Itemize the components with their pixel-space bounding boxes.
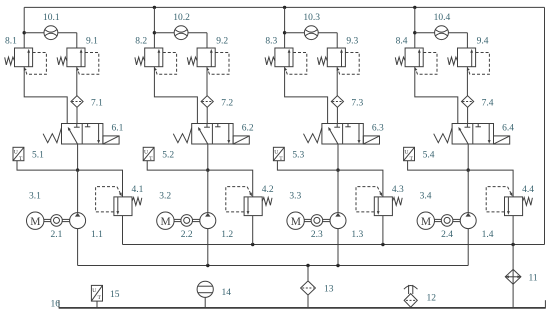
shaft motor 3.3 to coupling 2.3 [304,219,311,221]
filter 7.1 [71,96,103,109]
wire: valve 6.3 outlet down [337,144,339,170]
wire: relief 4.1 to return rail [122,216,124,245]
wire: valve 9.2 to filter 7.2 [206,67,208,96]
svg-text:U: U [404,149,408,155]
svg-text:2.2: 2.2 [181,230,193,240]
coupling 2.3 [311,215,323,241]
svg-text:5.2: 5.2 [162,150,174,160]
wire: sensor 5.1 drain to relief 4.1 [17,161,123,197]
svg-text:8.2: 8.2 [135,37,147,47]
svg-text:10.1: 10.1 [43,13,60,23]
pressure valve 8.1 [5,37,47,75]
tank line 16 [51,300,546,310]
wire: suction drop to filter 13 [307,266,309,281]
pump 1.2 [200,213,234,241]
wire: cooler 11 to tank line [512,284,514,308]
junction node suction / pump 1.3 [336,264,339,267]
directional valve 6.2 [173,124,254,145]
shaft motor 3.2 to coupling 2.2 [174,219,181,221]
svg-text:4.4: 4.4 [522,185,534,195]
relief valve 4.4 [486,185,534,215]
wire: valve 8.1 to valve 6.1 port A [24,67,67,124]
wire: valve 8.2 to valve 6.2 port A [154,67,197,124]
svg-text:8.4: 8.4 [396,37,408,47]
svg-text:5.3: 5.3 [292,150,304,160]
svg-text:4.1: 4.1 [132,185,144,195]
motor 3.4 [417,191,434,229]
svg-text:4.2: 4.2 [262,185,274,195]
shaft motor 3.4 to coupling 2.4 [435,219,442,221]
pressure valve 8.2 [135,37,177,75]
wire: supply drop to valve 8.3 [284,7,286,48]
svg-text:15: 15 [110,290,120,300]
svg-text:10.2: 10.2 [173,13,190,23]
wire: valve 6.4 outlet down [467,144,469,170]
svg-text:10.3: 10.3 [303,13,320,23]
pump 1.1 [70,213,104,241]
pressure sensor 5.4 [404,147,435,162]
flow meter 10.4 [434,13,451,39]
filter 7.3 [331,96,363,109]
svg-text:10.4: 10.4 [434,13,451,23]
svg-text:1.3: 1.3 [351,230,363,240]
pressure valve 8.4 [395,37,437,75]
wire: pump 1.2 suction [207,229,209,266]
filter 7.4 [462,96,494,109]
wire: sensor 5.4 drain to relief 4.4 [408,161,513,197]
cooler 11 [505,269,538,284]
svg-text:6.2: 6.2 [242,124,254,134]
svg-text:12: 12 [427,293,437,303]
svg-text:8.3: 8.3 [265,37,277,47]
filter 7.2 [201,96,233,109]
svg-text:2.1: 2.1 [51,230,63,240]
svg-text:9.2: 9.2 [216,37,228,47]
svg-text:6.3: 6.3 [372,124,384,134]
svg-text:1.2: 1.2 [221,230,233,240]
junction node top rail / section 2 [153,6,156,9]
svg-text:M: M [421,216,431,228]
wire: pump 1.4 suction [467,229,469,266]
junction node at flow-meter tee 10.2 [153,31,156,34]
svg-text:T: T [279,156,283,162]
svg-text:11: 11 [529,273,538,283]
relief valve 4.3 [356,185,404,215]
svg-text:5.4: 5.4 [423,150,435,160]
wire: drain collector rail [123,244,545,246]
svg-text:U: U [14,149,18,155]
pump 1.3 [330,213,364,241]
svg-text:1.4: 1.4 [482,230,494,240]
svg-text:13: 13 [324,284,334,294]
svg-text:T: T [19,156,23,162]
junction node at flow-meter tee 10.1 [23,31,26,34]
wire: branch to flow meter 10.3 [285,33,338,48]
wire: line to pump 1.1 [77,170,79,213]
wire: line to pump 1.2 [207,170,209,213]
junction node suction / pump 1.2 [206,264,209,267]
svg-text:M: M [30,216,40,228]
directional valve 6.4 [434,124,515,145]
junction node drain rail / cooler 11 [511,243,514,246]
pressure sensor 5.3 [273,147,304,162]
svg-text:7.2: 7.2 [221,99,233,109]
directional valve 6.3 [304,124,385,145]
wire: relief 4.3 to return rail [382,216,384,245]
pump 1.4 [460,213,494,241]
svg-text:T: T [149,156,153,162]
relief valve 4.2 [226,185,274,215]
svg-text:M: M [161,216,171,228]
wire: supply drop to valve 8.4 [414,7,416,48]
svg-text:U: U [92,288,96,294]
pressure sensor 5.2 [143,147,174,162]
motor 3.1 [27,191,44,229]
shaft coupling 2.3 to pump 1.3 [323,219,330,221]
wire: suction manifold [78,265,469,267]
svg-text:2.3: 2.3 [311,230,323,240]
svg-text:9.4: 9.4 [477,37,489,47]
coupling 2.1 [51,215,63,241]
wire: sensor 5.3 drain to relief 4.3 [277,161,383,197]
junction node drain rail / 4.2 [251,243,254,246]
wire: valve 9.4 to filter 7.4 [466,67,468,96]
pressure sensor 5.1 [13,147,44,162]
wire: line to pump 1.4 [467,170,469,213]
wire: valve 6.2 outlet down [207,144,209,170]
filter 13 [301,281,334,295]
junction node suction / filter 13 [306,264,309,267]
wire: branch to flow meter 10.1 [24,33,77,48]
wire: pump 1.1 suction [77,229,79,266]
svg-text:T: T [410,156,414,162]
junction node at flow-meter tee 10.3 [283,31,286,34]
wire: filter 7.4 to valve 6.4 [467,107,469,123]
wire: right edge down leg [544,7,546,244]
wire: filter 7.2 to valve 6.2 [206,107,208,123]
pressure valve 8.3 [265,37,307,75]
wire: valve 8.3 to valve 6.3 port A [285,67,328,124]
pressure valve 9.3 [318,37,360,75]
svg-text:7.1: 7.1 [91,99,103,109]
level gauge 14 [197,281,231,308]
junction node on line P3 [336,168,339,171]
junction node top rail / section 3 [283,6,286,9]
svg-text:3.4: 3.4 [420,191,432,201]
air breather 12 [404,285,436,307]
temperature sensor 15 [91,285,119,308]
wire: supply drop to valve 8.2 [153,7,155,48]
wire: valve 6.1 outlet down [77,144,79,170]
coupling 2.4 [441,215,453,241]
junction node on line P2 [206,168,209,171]
flow meter 10.1 [43,13,60,39]
svg-text:3.1: 3.1 [29,191,41,201]
svg-text:3.3: 3.3 [289,191,301,201]
junction node on line P4 [467,168,470,171]
svg-text:U: U [274,149,278,155]
pressure valve 9.2 [187,37,229,75]
shaft coupling 2.4 to pump 1.4 [453,219,460,221]
svg-text:1.1: 1.1 [91,230,103,240]
wire: drain rail to cooler 11 [512,245,514,270]
junction node drain rail / 4.3 [381,243,384,246]
wire: filter 13 to tank line [307,295,309,308]
pressure valve 9.1 [57,37,99,75]
wire: sensor 5.2 drain to relief 4.2 [147,161,253,197]
svg-text:T: T [98,295,102,301]
svg-text:4.3: 4.3 [392,185,404,195]
wire: top return rail [24,6,544,8]
junction node on line P1 [76,168,79,171]
svg-text:9.3: 9.3 [346,37,358,47]
svg-text:9.1: 9.1 [86,37,98,47]
flow meter 10.3 [303,13,320,39]
svg-text:5.1: 5.1 [32,150,44,160]
svg-text:M: M [291,216,301,228]
svg-text:7.3: 7.3 [351,99,363,109]
pressure valve 9.4 [448,37,490,75]
svg-text:6.1: 6.1 [112,124,124,134]
wire: valve 9.1 to filter 7.1 [76,67,78,96]
wire: pump 1.3 suction [337,229,339,266]
svg-text:U: U [144,149,148,155]
junction node at flow-meter tee 10.4 [413,31,416,34]
wire: branch to flow meter 10.2 [154,33,207,48]
motor 3.2 [157,191,174,229]
svg-text:16: 16 [51,300,61,310]
coupling 2.2 [181,215,193,241]
wire: line to pump 1.3 [337,170,339,213]
wire: branch to flow meter 10.4 [415,33,468,48]
wire: relief 4.2 to return rail [252,216,254,245]
relief valve 4.1 [96,185,144,215]
svg-text:2.4: 2.4 [441,230,453,240]
motor 3.3 [287,191,304,229]
wire: supply drop to valve 8.1 [23,7,25,48]
wire: relief 4.4 to return rail [512,216,514,245]
junction node top rail / section 4 [413,6,416,9]
svg-text:14: 14 [222,288,232,298]
svg-text:7.4: 7.4 [482,99,494,109]
wire: filter 7.1 to valve 6.1 [76,107,78,123]
shaft motor 3.1 to coupling 2.1 [44,219,51,221]
directional valve 6.1 [43,124,124,145]
svg-text:3.2: 3.2 [159,191,171,201]
shaft coupling 2.2 to pump 1.2 [193,219,200,221]
flow meter 10.2 [173,13,190,39]
svg-text:6.4: 6.4 [502,124,514,134]
wire: valve 9.3 to filter 7.3 [336,67,338,96]
wire: valve 8.4 to valve 6.4 port A [415,67,458,124]
svg-text:8.1: 8.1 [5,37,17,47]
shaft coupling 2.1 to pump 1.1 [62,219,69,221]
wire: filter 7.3 to valve 6.3 [336,107,338,123]
